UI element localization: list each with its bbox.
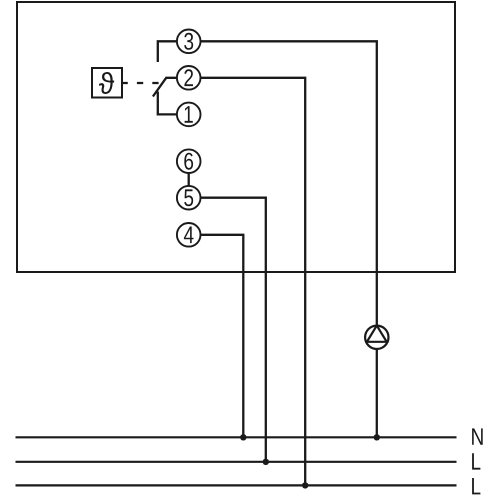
junction dot wire4 on N [240,434,246,440]
dashed actuator link [122,82,162,84]
wire: terminal 5 right and down to L1 bus [200,198,266,462]
label L (middle bus) [472,453,480,469]
wire: pump down to N bus [376,348,378,437]
thermostat box [92,68,122,98]
switch blade (to terminal 2) [153,78,178,97]
wire: switch pivot to terminal 1 [158,92,178,115]
pump circle [365,326,388,349]
wire: terminal 2 right and down to L2 bus [200,78,305,486]
bus L2 [16,484,457,486]
wire: terminal 3 right and down to pump [200,41,377,326]
junction dot wire3 on N [374,434,380,440]
enclosure box [17,2,455,272]
wire: link terminal 6 to terminal 5 [188,173,190,187]
terminal circle 2 [177,66,201,90]
bus N [16,436,457,438]
wire: terminal 3 stub to switch upper contact [158,41,178,62]
digit 2 [184,69,193,86]
terminal circle 5 [177,186,201,210]
bus L1 [16,461,457,463]
terminal circle 3 [177,30,201,54]
digit 4 [184,227,194,244]
pump triangle [367,326,387,342]
terminal circle 4 [177,223,201,247]
terminal circle 6 [177,149,201,173]
digit 3 [184,33,193,50]
label N [472,428,483,444]
junction dot wire5 on L1 [263,459,269,465]
digit 6 [184,153,193,170]
junction dot wire2 on L2 [302,482,308,488]
digit 5 [184,189,193,206]
wire: terminal 4 right and down to N bus [200,235,243,437]
label L (bottom bus) [472,478,480,494]
terminal circle 1 [177,103,201,127]
digit 1 [185,106,193,123]
thermostat symbol (script theta) [99,72,114,94]
